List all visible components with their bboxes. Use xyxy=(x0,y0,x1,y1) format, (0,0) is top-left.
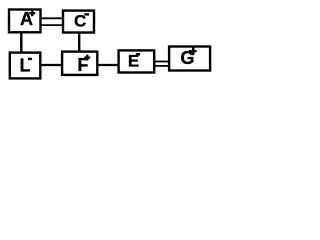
box L- xyxy=(10,53,41,79)
wire C- down to F+ xyxy=(78,33,80,52)
box C- xyxy=(63,11,94,33)
wire double line A+ to C- lower xyxy=(41,24,64,26)
wire F+ to E- xyxy=(97,64,118,66)
box E- xyxy=(119,50,155,72)
box F+ xyxy=(62,52,97,76)
wire L- to F+ xyxy=(40,64,62,66)
wire double line E- to G+ lower xyxy=(154,65,168,67)
svg-text:A: A xyxy=(20,9,33,29)
wire double line E- to G+ upper xyxy=(154,61,168,63)
box A+ xyxy=(9,9,41,33)
wire A+ down to L- xyxy=(20,32,22,52)
box G+ xyxy=(169,47,210,71)
wire double line A+ to C- upper xyxy=(41,17,64,19)
